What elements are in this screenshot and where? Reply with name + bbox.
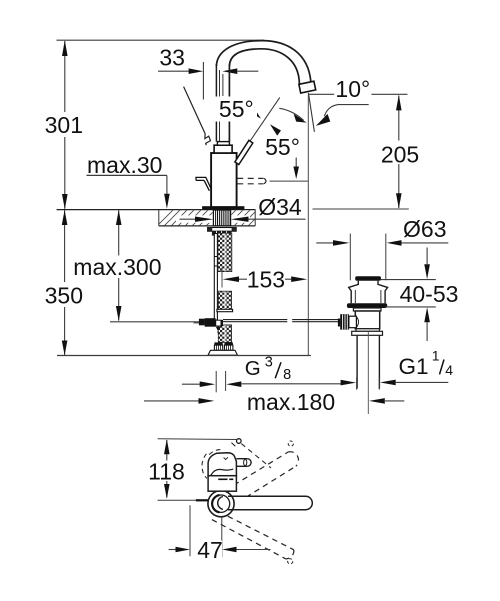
base flange: [202, 206, 244, 209]
label max.300: [73, 254, 161, 280]
lever open position solid: [235, 140, 253, 164]
dashed tip circle upper: [288, 441, 293, 446]
dashed tip leader from top circle: [231, 443, 271, 468]
label 153: [247, 267, 285, 293]
dimension 33: [158, 62, 258, 100]
drain rod clamp knob: [338, 314, 359, 329]
water stream 10 deg line: [308, 93, 314, 132]
body collar: [214, 145, 232, 153]
dashed hidden arc left of body: [202, 450, 222, 479]
svg-text:max.180: max.180: [247, 389, 335, 415]
dimension 350: [62, 210, 68, 355]
label 205: [381, 142, 419, 168]
label 10 deg: [335, 76, 370, 102]
faucet centerline: [221, 268, 223, 288]
dimension 205: [313, 95, 409, 209]
label max.180: [247, 389, 335, 415]
label max.30: [87, 152, 162, 178]
dimension 153: [223, 276, 308, 282]
handle cylinder top view: [236, 459, 251, 467]
svg-text:3: 3: [265, 354, 273, 370]
svg-text:Ø34: Ø34: [258, 194, 302, 220]
drain upper flange: [349, 281, 388, 303]
svg-text:47: 47: [197, 537, 223, 563]
label 55 deg second: [265, 134, 300, 160]
drain stopper cap: [355, 276, 381, 281]
drain body: [355, 311, 379, 329]
svg-text:205: 205: [381, 142, 419, 168]
dashed lever closed position: [237, 178, 308, 183]
dimension 118: [158, 439, 237, 502]
dimension max.30 with underline leader: [87, 175, 170, 208]
faucet body: [211, 153, 237, 207]
mounting nut: [212, 231, 232, 235]
svg-text:8: 8: [283, 367, 291, 383]
label 301: [45, 112, 83, 138]
label 350: [45, 282, 83, 308]
svg-text:G: G: [245, 357, 261, 380]
braided hose upper block: [218, 233, 232, 271]
dimension max.180: [144, 398, 404, 404]
drain tailpipe: [357, 335, 379, 388]
label 118: [148, 458, 185, 484]
spout collar ring: [208, 491, 234, 517]
label G3/8: [245, 354, 291, 383]
angle pinch arrows on lever leader: [250, 107, 281, 135]
rod clamp assembly: [194, 318, 224, 333]
hose length line 350 datum: [57, 355, 311, 357]
countertop deck slab with hatch: [57, 208, 267, 228]
svg-text:301: 301: [45, 112, 83, 138]
svg-text:G1: G1: [399, 354, 429, 379]
thread dimension row G3/8: [182, 371, 341, 392]
svg-text:118: 118: [148, 458, 185, 484]
svg-text:4: 4: [445, 362, 453, 378]
horizontal pop-up rod: [223, 320, 340, 322]
top view body lower block: [208, 476, 236, 492]
label Ø34: [258, 194, 302, 220]
dashed swivel bar lower: [212, 516, 294, 559]
drain pull knob on body left: [196, 177, 211, 190]
dimension max.300: [110, 210, 208, 322]
svg-text:55°: 55°: [265, 134, 300, 160]
pop-up rod vertical: [214, 234, 217, 321]
dimension 40-53: [381, 248, 436, 342]
svg-text:10°: 10°: [335, 76, 370, 102]
label 47: [196, 537, 223, 563]
collar step: [217, 142, 229, 146]
braided hose middle block: [218, 291, 231, 309]
aerator tip: [299, 81, 316, 93]
dimension Ø63: [316, 234, 448, 281]
dashed swivel bar upper: [234, 452, 299, 503]
bar re-stroke over ring: [228, 496, 306, 509]
svg-text:40-53: 40-53: [400, 281, 459, 307]
dimension 55 deg (lever lift) arrow: [293, 158, 299, 180]
dimension 47: [169, 505, 271, 557]
gooseneck spout arcs: [216, 41, 311, 84]
thread dimension row G1 1/4: [341, 378, 449, 390]
top view body upper block: [208, 453, 236, 476]
locknut washer under deck: [208, 228, 237, 232]
long vertical extension from spout tip: [307, 95, 309, 355]
drain centerline: [367, 332, 369, 415]
hose end nuts G3/8: [208, 342, 238, 355]
svg-text:33: 33: [159, 45, 185, 71]
label G1 1/4: [399, 348, 454, 379]
drain seal ring: [347, 303, 387, 308]
svg-text:max.300: max.300: [73, 254, 161, 280]
dimension 301 (vertical line with arrows): [62, 40, 68, 209]
svg-text:55°: 55°: [219, 96, 254, 122]
spout tip circle top view: [237, 439, 242, 444]
label 40-53: [400, 281, 459, 307]
dimension 10 deg leader: [279, 94, 407, 126]
drain locknut ring: [352, 331, 383, 335]
label Ø63: [403, 216, 446, 242]
dimension Ø34 arrows: [180, 217, 306, 222]
zigzag leader to pipe: [184, 87, 211, 146]
svg-text:Ø63: Ø63: [403, 216, 446, 242]
svg-text:153: 153: [247, 267, 285, 293]
svg-text:350: 350: [45, 282, 83, 308]
svg-text:max.30: max.30: [87, 152, 162, 178]
solid spout bar (stadium): [222, 496, 312, 509]
top reference line (spout height datum): [57, 39, 265, 41]
threaded shank in deck: [213, 210, 230, 226]
label 33: [159, 45, 185, 71]
hose fitting ring: [217, 309, 233, 311]
lever leader line: [246, 97, 280, 147]
spout riser pipes: [216, 64, 229, 142]
dashed tip circle lower: [288, 559, 293, 564]
label 55 deg first (with white backing): [216, 96, 258, 122]
svg-text:1: 1: [432, 348, 440, 364]
drain flange band: [353, 308, 381, 311]
braided hose lower block: [218, 325, 231, 343]
drain body lip: [356, 329, 379, 332]
